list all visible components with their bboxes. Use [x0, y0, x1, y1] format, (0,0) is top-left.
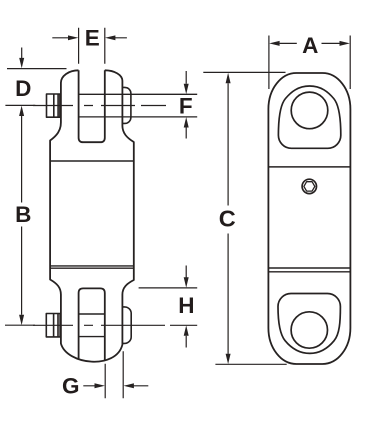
dimension A extension lines	[269, 36, 350, 90]
dimension H extension line	[139, 287, 198, 289]
svg-text:G: G	[62, 374, 80, 399]
dimension H arrows	[185, 266, 187, 348]
dimension G arrows	[83, 385, 148, 387]
svg-text:E: E	[85, 26, 100, 51]
svg-text:C: C	[219, 206, 236, 232]
svg-text:A: A	[302, 33, 318, 58]
bottom pin centerline / H lower extension	[33, 324, 197, 326]
right view upper section line	[268, 166, 350, 168]
left view body upper section line	[50, 160, 134, 162]
right view top eye hole	[291, 92, 328, 129]
left view bottom clevis slot	[79, 288, 105, 361]
dimension B bottom line	[5, 324, 35, 326]
dimension B line and arrows	[21, 116, 23, 315]
dimension C extension lines	[203, 72, 286, 364]
dimension C line and arrows	[227, 83, 229, 354]
dimension G extension lines	[105, 351, 123, 398]
svg-text:F: F	[179, 94, 193, 119]
right view outer body outline	[268, 73, 350, 364]
bottom pin body lines	[79, 314, 105, 337]
top pin body lines / F extension lines	[79, 94, 198, 117]
right view bottom eye outline	[278, 294, 340, 354]
top pin right end cap	[122, 87, 130, 123]
right view top eye outline	[278, 86, 340, 148]
bottom pin right end cap	[122, 307, 131, 344]
dimension D top arrow	[21, 48, 23, 59]
bottom pin head	[46, 314, 60, 337]
svg-text:B: B	[15, 202, 31, 227]
left view top clevis slot	[79, 70, 105, 142]
dimension A line and arrows	[280, 42, 340, 44]
dimension E extension lines	[79, 28, 105, 64]
left view outer body outline	[50, 70, 134, 361]
top pin centerline	[33, 105, 166, 107]
top pin head	[47, 94, 60, 117]
svg-text:D: D	[15, 76, 31, 101]
right view bottom eye hole	[291, 312, 327, 348]
svg-text:H: H	[178, 293, 194, 318]
right view hex screw	[302, 179, 316, 193]
right view lower double line	[268, 268, 350, 272]
left view body lower double line	[50, 266, 134, 268]
dimension E arrows	[52, 37, 127, 39]
dimension D lines	[5, 69, 66, 106]
dimension F arrows	[185, 71, 187, 139]
